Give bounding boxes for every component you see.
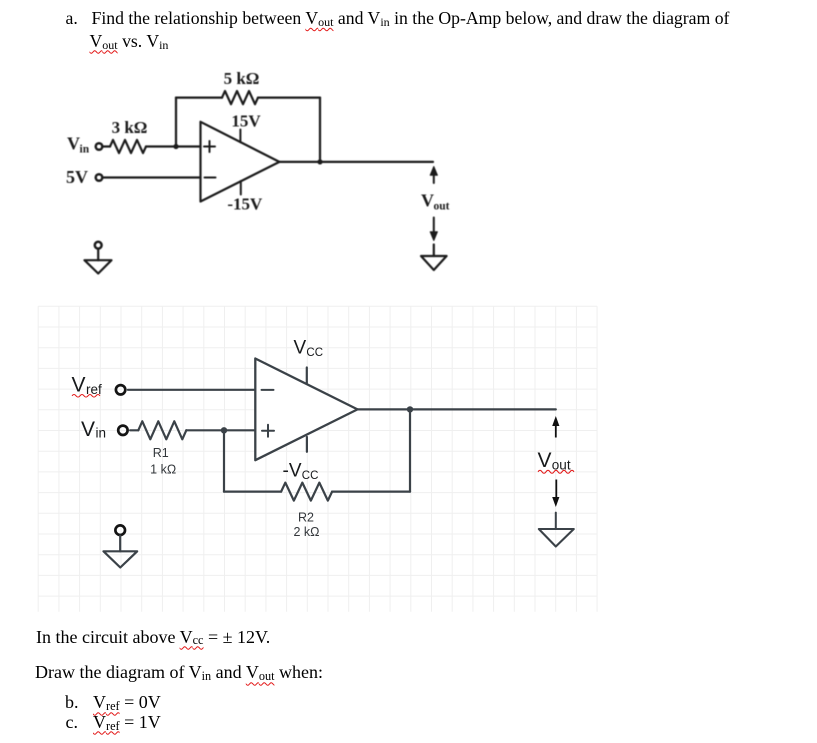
wire op-amp output xyxy=(279,161,433,163)
wire resistor to op-amp + input xyxy=(146,145,201,147)
Vcc supply tick xyxy=(306,368,308,384)
bottom paragraph: In the circuit above Vcc = +/- 12V. xyxy=(36,628,270,648)
svg-text:2 kΩ: 2 kΩ xyxy=(293,525,319,539)
svg-text:V: V xyxy=(538,449,552,472)
wire op-amp output xyxy=(358,408,556,410)
svg-text:V: V xyxy=(72,373,86,396)
wire Vin terminal to resistor xyxy=(103,145,110,147)
arrow up (Vout) xyxy=(555,426,557,438)
op-amp - input symbol xyxy=(262,389,274,391)
junction node at + input xyxy=(221,427,227,433)
op-amp U1 triangle xyxy=(201,122,280,202)
wire feedback right vertical to output xyxy=(319,98,321,162)
wire feedback top right segment xyxy=(258,96,320,98)
arrow up (Vout) xyxy=(433,174,435,183)
ground (bottom left, with terminal) xyxy=(95,242,102,249)
-Vcc supply tick xyxy=(306,437,308,452)
wire feedback bottom left segment xyxy=(224,491,281,493)
wire feedback top left segment xyxy=(176,96,222,98)
ground stem bottom left xyxy=(119,536,121,552)
ground (below Vout arrow) stem xyxy=(555,513,557,529)
wire 5V to op-amp - input xyxy=(103,176,201,178)
ground triangle right xyxy=(539,529,574,547)
svg-text:R2: R2 xyxy=(298,511,314,525)
red squiggle under Vout xyxy=(538,470,574,473)
svg-text:-V: -V xyxy=(283,461,302,482)
terminal 5V (open circle) xyxy=(96,174,103,181)
svg-text:V: V xyxy=(294,337,307,358)
svg-text:1 kΩ: 1 kΩ xyxy=(150,463,176,477)
red squiggle under Vref xyxy=(72,395,100,398)
wire R1 to op-amp + input xyxy=(186,429,254,431)
item c xyxy=(66,713,79,731)
terminal Vin (open circle) xyxy=(96,143,103,150)
terminal Vin (open circle) xyxy=(118,426,127,435)
15V supply tick xyxy=(239,130,241,143)
op-amp U2 triangle xyxy=(255,359,357,461)
op-amp + input symbol xyxy=(204,141,215,152)
-15V supply tick xyxy=(240,181,242,195)
ground stem xyxy=(97,249,99,260)
wire feedback bottom right segment xyxy=(332,491,410,493)
wire Vin terminal to R1 xyxy=(130,429,138,431)
svg-text:V: V xyxy=(81,418,95,441)
problem statement line a part 2 xyxy=(90,32,169,52)
ground triangle xyxy=(85,260,112,273)
svg-text:CC: CC xyxy=(302,470,319,482)
arrow down (Vout) xyxy=(555,480,557,498)
wire feedback left vertical xyxy=(175,98,177,147)
bottom paragraph: Draw the diagram xyxy=(35,663,323,683)
svg-text:CC: CC xyxy=(306,347,323,359)
junction node at output xyxy=(317,159,322,164)
junction node at output xyxy=(407,406,413,412)
junction node at + input xyxy=(173,144,178,149)
problem statement line a part 1 xyxy=(66,9,78,27)
resistor 3 kOhm xyxy=(110,140,146,153)
resistor R1 1 kOhm xyxy=(138,421,186,439)
wire Vref to op-amp - input xyxy=(128,389,254,391)
wire feedback left vertical to + input xyxy=(223,430,225,491)
op-amp - input symbol xyxy=(205,177,216,179)
ground (below Vout arrow) xyxy=(433,245,435,257)
ground triangle bottom left xyxy=(104,551,138,567)
terminal Vref (open circle) xyxy=(116,385,125,394)
wire feedback right vertical xyxy=(409,409,411,491)
svg-text:R1: R1 xyxy=(153,446,169,460)
terminal bottom left (open circle) xyxy=(115,525,125,535)
item b xyxy=(65,693,79,711)
svg-text:in: in xyxy=(96,426,107,441)
resistor R2 2 kOhm xyxy=(281,483,332,501)
op-amp + input symbol xyxy=(262,425,274,437)
arrow down (Vout) xyxy=(433,218,435,232)
resistor 5 kOhm (feedback) xyxy=(222,91,258,104)
svg-text:out: out xyxy=(552,457,571,472)
